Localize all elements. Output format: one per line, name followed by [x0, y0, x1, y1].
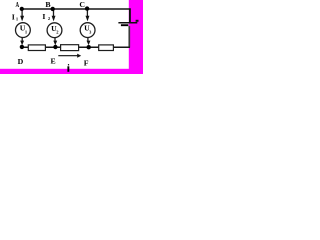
svg-text:A: A [16, 0, 20, 9]
svg-text:E: E [51, 56, 56, 65]
svg-text:I: I [12, 13, 15, 22]
svg-text:C: C [79, 0, 85, 9]
svg-text:B: B [45, 0, 50, 9]
svg-text:D: D [18, 57, 24, 66]
svg-text:I: I [42, 12, 45, 21]
svg-text:F: F [84, 59, 89, 68]
